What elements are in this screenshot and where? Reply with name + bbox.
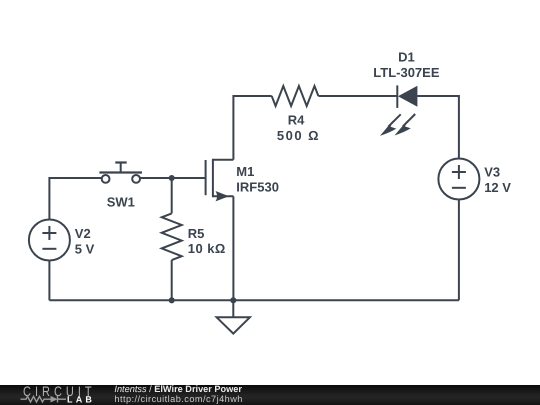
wire: switch to gate node bbox=[140, 177, 206, 179]
junction: ground node on bottom rail bbox=[230, 297, 236, 303]
junction: gate node / R5 top bbox=[169, 175, 175, 181]
wire: V2 plus up to switch row bbox=[49, 178, 101, 220]
svg-text:SW1: SW1 bbox=[107, 195, 135, 210]
svg-text:LAB: LAB bbox=[67, 395, 95, 405]
svg-text:Intentss / ElWire Driver Power: Intentss / ElWire Driver Power bbox=[114, 384, 242, 394]
LED D1 cathode bar bbox=[396, 85, 398, 108]
svg-text:IRF530: IRF530 bbox=[236, 179, 279, 194]
wire: R4 to D1 anode bbox=[318, 95, 397, 97]
voltage source V2 bbox=[29, 220, 70, 261]
svg-text:V3: V3 bbox=[484, 164, 500, 179]
svg-text:12 V: 12 V bbox=[484, 180, 511, 195]
wire: gate node down to R5 bbox=[171, 178, 173, 213]
svg-text:10 kΩ: 10 kΩ bbox=[188, 241, 226, 256]
LED D1 light arrow 1 bbox=[380, 114, 401, 136]
svg-text:R5: R5 bbox=[188, 226, 205, 241]
CircuitLab logo schematic glyph (resistor + diode) bbox=[21, 396, 67, 403]
svg-text:M1: M1 bbox=[236, 164, 254, 179]
wire: M1 source down to ground node bbox=[232, 196, 234, 300]
LED D1 light arrow 2 bbox=[395, 114, 416, 136]
svg-text:LTL-307EE: LTL-307EE bbox=[373, 65, 440, 80]
transistor M1 (NMOS) bbox=[206, 159, 234, 202]
wire: V2 minus down to bottom rail bbox=[48, 261, 50, 301]
ground bbox=[217, 300, 250, 333]
switch SW1 (pushbutton) bbox=[99, 163, 142, 183]
svg-text:D1: D1 bbox=[398, 49, 415, 64]
wire: R5 bottom to bottom rail bbox=[171, 260, 173, 300]
LED D1 body triangle bbox=[398, 86, 417, 107]
resistor R4 bbox=[272, 86, 319, 106]
svg-text:5 V: 5 V bbox=[75, 241, 95, 256]
svg-text:V2: V2 bbox=[75, 226, 91, 241]
wire: bottom rail bbox=[49, 299, 459, 301]
footer bar bbox=[0, 385, 540, 405]
wire: top rail left segment (M1 drain node to R4) bbox=[233, 96, 271, 160]
junction: R5 bottom on bottom rail bbox=[169, 297, 175, 303]
wire: V3 minus down to bottom rail bbox=[458, 200, 460, 301]
svg-text:http://circuitlab.com/c7j4hwh: http://circuitlab.com/c7j4hwh bbox=[114, 394, 242, 404]
svg-text:R4: R4 bbox=[288, 113, 305, 128]
wire: D1 cathode to V3 plus bbox=[417, 96, 459, 159]
voltage source V3 bbox=[438, 159, 479, 200]
resistor R5 bbox=[162, 213, 182, 260]
svg-text:500 Ω: 500 Ω bbox=[277, 128, 320, 143]
